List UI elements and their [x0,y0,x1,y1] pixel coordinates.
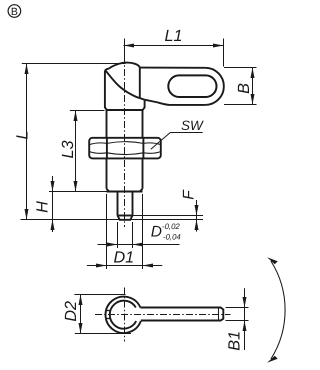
svg-text:F: F [181,189,198,200]
svg-text:L1: L1 [164,27,182,45]
shoulder extension line [49,191,107,193]
svg-text:D2: D2 [62,301,80,322]
svg-text:SW: SW [181,118,204,133]
dimension F [196,200,198,232]
handle lever arm [140,68,224,105]
svg-text:L: L [13,130,31,139]
locking pin [118,192,133,220]
hex nut chamfer arcs [89,142,160,155]
svg-text:B1: B1 [225,331,243,351]
svg-text:D: D [151,224,162,241]
dimension D1 [87,194,162,269]
sleeve inner circle [110,301,136,329]
cam slot notch left [106,310,111,312]
svg-text:-0,02: -0,02 [162,222,180,231]
centerline of plunger axis [124,39,126,61]
dimension L1 [124,39,224,67]
dimension B1 [226,288,249,350]
svg-text:L3: L3 [59,140,77,158]
head-hub vertical edge [139,68,141,98]
hex nut [89,138,161,159]
lever bar (bottom view) [140,308,223,321]
dimension D2 [74,295,131,334]
dimension H [52,176,54,232]
helical cam edge [105,70,144,99]
bottom view horizontal centerline [95,314,231,316]
view label B (circled) [8,5,21,18]
dimension D with tolerances [98,222,180,248]
sleeve outer circle [106,297,141,333]
dimension B [224,68,257,105]
handle oval slot [168,75,216,97]
lever bar chamfer line [218,308,220,321]
dimension L [22,64,126,220]
pin chamfer extension line [133,215,204,217]
rotation arc arrow [271,261,285,359]
svg-text:B: B [235,83,253,94]
cam head sleeve outline [105,63,145,110]
pin tip extension line [21,219,204,221]
svg-text:H: H [34,201,52,213]
bottom view vertical centerline [124,288,126,342]
svg-text:B: B [11,6,18,18]
threaded body [107,158,143,191]
dimension L3 [70,111,105,192]
neck below head [107,110,143,138]
svg-text:D1: D1 [113,248,134,266]
svg-text:-0,04: -0,04 [163,232,181,241]
